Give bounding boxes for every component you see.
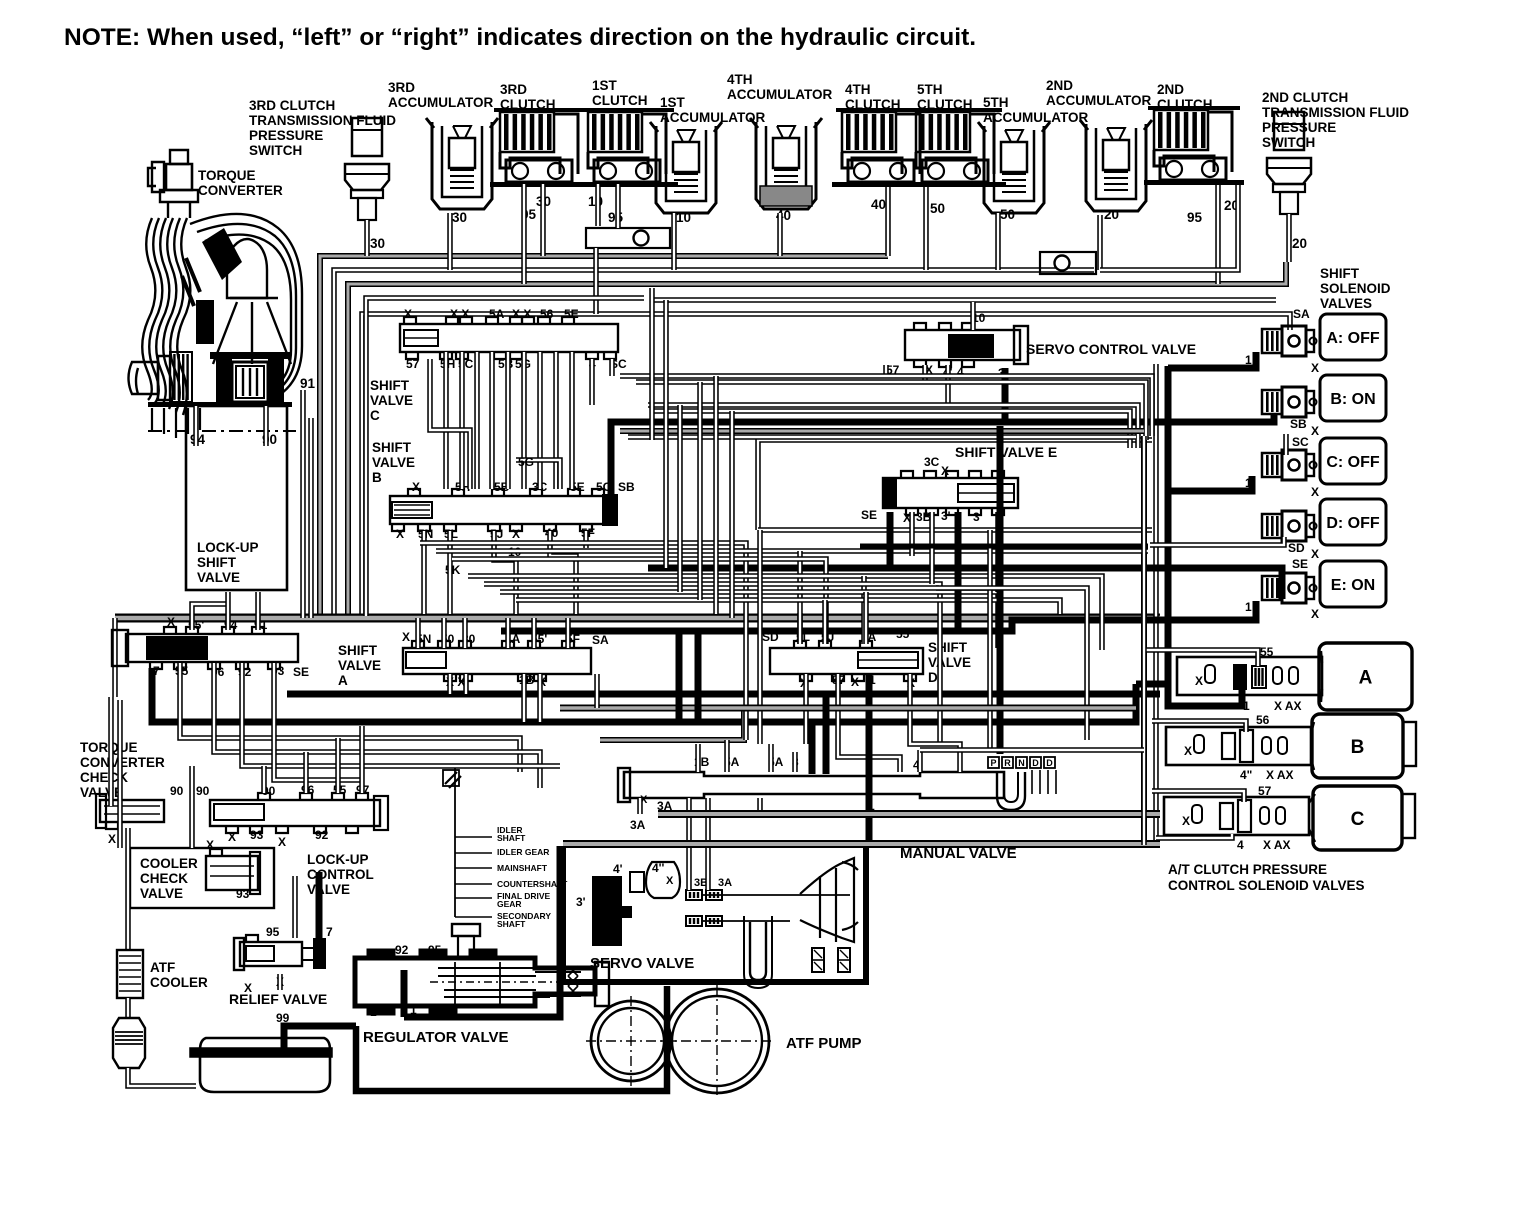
torque converter hub xyxy=(216,358,232,402)
manual valve detent ticks xyxy=(1031,770,1033,794)
wire valve A left tops up xyxy=(192,604,230,630)
svg-text:X: X xyxy=(1311,485,1319,499)
thick servo control valve 3 drop xyxy=(1002,368,1009,422)
wire lockup control valve tops up xyxy=(261,766,267,793)
wire valve A left bottoms down xyxy=(180,663,520,772)
solenoid A xyxy=(1262,329,1282,353)
wire check valve drop xyxy=(593,248,599,314)
svg-text:20: 20 xyxy=(1104,207,1119,222)
ATF pump right gear xyxy=(665,989,769,1093)
svg-text:X: X xyxy=(1311,547,1319,561)
svg-text:X: X xyxy=(404,307,412,321)
servo valve hatched couplers xyxy=(686,890,702,900)
svg-text:VALVES: VALVES xyxy=(1320,296,1372,311)
wire strainer to pan xyxy=(128,1068,196,1086)
svg-text:4': 4' xyxy=(613,862,623,876)
regulator valve spool xyxy=(355,950,609,1014)
3rd clutch xyxy=(500,112,554,152)
svg-text:D: D xyxy=(1046,758,1053,768)
solenoid D xyxy=(1262,514,1282,538)
pcsv A hatched plug xyxy=(1252,666,1266,688)
servo control valve black section xyxy=(948,334,994,358)
wire valve C left port drop xyxy=(430,359,470,489)
svg-text:3': 3' xyxy=(576,895,586,909)
svg-text:SE: SE xyxy=(861,508,877,522)
svg-text:30: 30 xyxy=(452,210,467,225)
svg-text:X: X xyxy=(412,480,420,494)
svg-text:ATF PUMP: ATF PUMP xyxy=(786,1035,862,1052)
svg-text:SC: SC xyxy=(1292,435,1309,449)
shift valve A right piston xyxy=(406,652,446,668)
3rd clutch pressure switch xyxy=(352,118,382,156)
wire 2nd switch 20 xyxy=(1286,214,1292,262)
ATF pump left gear xyxy=(591,1001,671,1081)
wire bus (B4) xyxy=(652,297,1276,303)
svg-text:VALVE: VALVE xyxy=(80,785,123,800)
svg-text:X: X xyxy=(1184,744,1192,758)
thick 3 line servo control to manual valve xyxy=(997,426,1004,754)
svg-text:SHAFT: SHAFT xyxy=(497,833,526,843)
shift valve E black end xyxy=(883,479,897,507)
svg-text:ACCUMULATOR: ACCUMULATOR xyxy=(983,110,1088,125)
svg-text:57: 57 xyxy=(1258,784,1272,798)
servo valve enclosure xyxy=(563,846,866,982)
wire 5th accumulator drop xyxy=(995,213,1001,270)
wire valve E port drops xyxy=(909,512,915,556)
svg-text:VALVE: VALVE xyxy=(370,393,413,408)
svg-text:VALVE: VALVE xyxy=(140,886,183,901)
svg-text:55: 55 xyxy=(1260,645,1274,659)
svg-text:SWITCH: SWITCH xyxy=(1262,135,1315,150)
wire 4th clutch 40 xyxy=(885,187,891,256)
wire 3rd clutch 95 xyxy=(521,184,527,284)
shift valve B spool xyxy=(390,496,616,524)
svg-text:ACCUMULATOR: ACCUMULATOR xyxy=(1046,93,1151,108)
ATF cooler xyxy=(117,950,143,998)
wire grey bus under manual valve xyxy=(658,810,1160,818)
svg-text:VALVE: VALVE xyxy=(372,455,415,470)
2nd accumulator xyxy=(1086,124,1146,211)
svg-text:X AX: X AX xyxy=(1274,699,1302,713)
wire manual valve bottom drops xyxy=(637,798,643,814)
svg-text:20: 20 xyxy=(1292,236,1307,251)
gear leader hatch xyxy=(445,772,461,788)
strainer xyxy=(113,1018,145,1068)
thick line to solenoid E top xyxy=(648,568,1282,599)
relief valve black bit xyxy=(313,938,326,969)
wire bus 30 (B1) xyxy=(320,256,888,616)
svg-text:3RD: 3RD xyxy=(500,82,527,97)
wire pcsv A 55 feed xyxy=(1144,650,1258,666)
wire 1st accumulator drop xyxy=(671,213,677,270)
wire 5G loop xyxy=(516,460,560,489)
svg-text:C: C xyxy=(370,408,380,423)
svg-text:X: X xyxy=(206,838,214,852)
cooler check valve box xyxy=(130,848,274,908)
cooler check valve spool xyxy=(206,856,258,890)
svg-text:95: 95 xyxy=(266,925,280,939)
svg-text:A: OFF: A: OFF xyxy=(1326,330,1380,347)
thick line to solenoid C xyxy=(1168,476,1252,491)
manual valve PRNDD boxes xyxy=(988,757,999,768)
wire under pcsv C xyxy=(1156,834,1232,838)
svg-text:SA: SA xyxy=(592,633,609,647)
shift valve E enclosure xyxy=(758,440,1152,530)
thick valve A bottom enclosure xyxy=(287,691,1160,698)
thick under valve A L xyxy=(152,668,1136,722)
svg-text:SHIFT: SHIFT xyxy=(928,640,968,655)
wire relief to regulator xyxy=(277,974,283,990)
svg-text:4": 4" xyxy=(1240,768,1252,782)
shift valve A left spool xyxy=(126,634,298,662)
svg-text:1: 1 xyxy=(1245,600,1252,614)
wire servo control drops xyxy=(883,365,889,376)
svg-text:X: X xyxy=(108,832,116,846)
wire pcsv B 56 feed xyxy=(1152,721,1246,732)
svg-text:IDLER GEAR: IDLER GEAR xyxy=(497,847,549,857)
wire bus pair y404 xyxy=(648,405,1138,448)
oil pan strainer band xyxy=(190,1048,332,1057)
wire bus to SA (B5) xyxy=(362,314,1290,616)
lock-up control valve right cap xyxy=(374,796,388,830)
shift valve A left cap xyxy=(112,630,128,666)
gearbox label leaders xyxy=(455,836,492,838)
svg-text:X AX: X AX xyxy=(1266,768,1294,782)
wire jog to pcsv column xyxy=(936,588,1087,740)
svg-text:95: 95 xyxy=(1187,210,1203,225)
svg-text:40: 40 xyxy=(871,197,886,212)
svg-text:LOCK-UP: LOCK-UP xyxy=(307,852,369,867)
torque converter left bolt xyxy=(129,356,171,400)
lock-up control valve spool xyxy=(210,800,380,826)
wire valve D bottoms down xyxy=(803,674,809,744)
svg-text:90: 90 xyxy=(170,784,184,798)
svg-text:COOLER: COOLER xyxy=(150,975,208,990)
svg-text:CLUTCH: CLUTCH xyxy=(592,93,648,108)
wire 94 90 drops xyxy=(193,406,199,446)
wire 4th accumulator drop xyxy=(777,213,783,256)
svg-text:D: D xyxy=(1032,758,1039,768)
svg-text:TRANSMISSION FLUID: TRANSMISSION FLUID xyxy=(249,113,396,128)
svg-text:D: D xyxy=(928,670,938,685)
1st clutch xyxy=(588,112,642,152)
wire servo control valve 10 drop xyxy=(970,302,976,330)
torque converter check valve spool xyxy=(100,800,164,822)
svg-text:X: X xyxy=(1195,674,1203,688)
svg-text:B: B xyxy=(1351,737,1365,758)
svg-text:X: X xyxy=(1311,607,1319,621)
pcsv B plugs xyxy=(1222,733,1235,759)
servo valve small parts xyxy=(630,872,644,892)
wire 5th clutch 50 xyxy=(923,187,929,270)
servo control valve right cap xyxy=(1014,326,1028,364)
svg-text:5G: 5G xyxy=(518,455,534,469)
svg-text:92: 92 xyxy=(395,943,409,957)
wire pcsv C 57 feed xyxy=(1152,791,1244,802)
svg-text:93: 93 xyxy=(250,828,264,842)
svg-text:COOLER: COOLER xyxy=(140,856,198,871)
svg-text:X: X xyxy=(396,527,404,541)
svg-text:B: B xyxy=(372,470,382,485)
solenoid box B: ON xyxy=(1320,375,1386,421)
solenoid E xyxy=(1262,576,1282,600)
svg-text:MAINSHAFT: MAINSHAFT xyxy=(497,863,548,873)
svg-text:ACCUMULATOR: ACCUMULATOR xyxy=(660,110,765,125)
svg-text:7: 7 xyxy=(326,925,333,939)
solenoid box D: OFF xyxy=(1320,499,1386,545)
svg-text:ACCUMULATOR: ACCUMULATOR xyxy=(388,95,493,110)
svg-text:N: N xyxy=(1018,758,1025,768)
pcsv A black plug xyxy=(1233,664,1247,690)
svg-text:X: X xyxy=(278,835,286,849)
wire valve C right port drops xyxy=(589,359,595,405)
svg-text:B: ON: B: ON xyxy=(1330,391,1375,408)
svg-text:SERVO VALVE: SERVO VALVE xyxy=(590,955,694,972)
servo valve U tube xyxy=(750,922,766,980)
wire staircase runs B to D/E xyxy=(420,543,746,740)
solenoid B xyxy=(1262,390,1282,414)
svg-text:56: 56 xyxy=(540,307,554,321)
svg-text:REGULATOR VALVE: REGULATOR VALVE xyxy=(363,1029,509,1046)
svg-text:COUNTERSHAFT: COUNTERSHAFT xyxy=(497,879,568,889)
svg-text:1: 1 xyxy=(370,1005,377,1019)
lock-up control valve piston xyxy=(214,804,264,820)
shift valve C spool xyxy=(400,324,618,352)
svg-text:SWITCH: SWITCH xyxy=(249,143,302,158)
svg-text:2ND: 2ND xyxy=(1046,78,1073,93)
wire valve A right tops up xyxy=(415,618,421,648)
svg-text:X AX: X AX xyxy=(1263,838,1291,852)
wire 2nd clutch 20 xyxy=(1100,185,1238,270)
wire 4 line down xyxy=(987,530,993,750)
thick valve D 1 port to manual valve xyxy=(866,674,873,846)
thick D-row bus xyxy=(860,544,1148,549)
wire grey bus y708 xyxy=(560,705,1136,712)
svg-text:4TH: 4TH xyxy=(727,72,753,87)
manual valve left cap xyxy=(618,768,630,802)
lock-up shift valve box xyxy=(186,406,287,590)
thick pump suction xyxy=(356,986,667,1091)
svg-text:50: 50 xyxy=(1000,207,1015,222)
svg-text:X: X xyxy=(666,875,674,887)
svg-text:2ND CLUTCH: 2ND CLUTCH xyxy=(1262,90,1348,105)
wire 2nd accumulator drop xyxy=(1097,215,1103,270)
wire 2nd clutch 95 xyxy=(1215,185,1221,284)
wire mid pair to manual valve xyxy=(757,530,763,744)
wire valve D top ports up xyxy=(797,613,803,644)
torque converter xyxy=(142,150,302,415)
svg-text:5TH: 5TH xyxy=(983,95,1009,110)
svg-text:C: C xyxy=(1351,809,1365,830)
svg-text:RELIEF VALVE: RELIEF VALVE xyxy=(229,991,327,1007)
thick into A body xyxy=(1136,681,1168,688)
shift valve B black end xyxy=(602,494,618,526)
manual valve enclosure top xyxy=(600,710,744,740)
servo valve detent squares xyxy=(812,948,824,972)
5th clutch xyxy=(916,112,970,152)
svg-text:CONVERTER: CONVERTER xyxy=(198,183,283,198)
svg-text:3C: 3C xyxy=(924,455,940,469)
servo valve fork xyxy=(800,858,858,942)
thick line to solenoid A xyxy=(1168,352,1256,368)
wire grey pair y430 xyxy=(620,428,1144,434)
torque converter turbine dark patch xyxy=(202,228,242,280)
wire right column hatched vertical xyxy=(1141,436,1147,845)
4th clutch xyxy=(842,112,896,152)
svg-text:30: 30 xyxy=(370,236,385,251)
svg-text:2ND: 2ND xyxy=(1157,82,1184,97)
svg-text:SHAFT: SHAFT xyxy=(497,919,526,929)
shift valve A right spool xyxy=(403,648,591,674)
wire valve B bottom drops xyxy=(421,531,427,614)
svg-text:TORQUE: TORQUE xyxy=(198,168,256,183)
wire 99 pipe xyxy=(284,1026,356,1048)
svg-text:VALVE: VALVE xyxy=(307,882,350,897)
4th accumulator xyxy=(756,122,816,209)
wire SA port drop xyxy=(594,674,600,708)
thick manual valve feeds xyxy=(809,722,816,774)
svg-text:3A: 3A xyxy=(630,818,646,832)
pressure control valve C body xyxy=(1309,794,1315,842)
wire manual valve right 4 port xyxy=(917,750,923,772)
svg-text:1: 1 xyxy=(1243,699,1250,713)
svg-text:X: X xyxy=(512,527,520,541)
svg-text:PRESSURE: PRESSURE xyxy=(249,128,323,143)
svg-text:SA: SA xyxy=(1293,307,1310,321)
svg-text:SHIFT: SHIFT xyxy=(338,643,378,658)
valve C enclosure xyxy=(366,298,644,616)
svg-text:4: 4 xyxy=(1237,838,1244,852)
svg-text:LOCK-UP: LOCK-UP xyxy=(197,540,259,555)
svg-text:SE: SE xyxy=(293,665,309,679)
thick regulator enclosure xyxy=(401,970,408,1017)
shift valve E spool xyxy=(883,478,1018,508)
wire cooler to strainer xyxy=(125,998,131,1018)
pcsv C plugs xyxy=(1220,803,1233,829)
svg-text:SHIFT: SHIFT xyxy=(370,378,410,393)
wire mid verticals between buses xyxy=(649,288,655,440)
svg-text:X: X xyxy=(1311,361,1319,375)
manual valve detent xyxy=(997,772,1025,810)
svg-text:3RD CLUTCH: 3RD CLUTCH xyxy=(249,98,335,113)
relief valve spool xyxy=(240,942,302,966)
wire SC corner to solenoid C xyxy=(1283,434,1289,455)
thick line pressure vertical right xyxy=(1165,366,1172,708)
wire manual valve top ports xyxy=(695,744,701,772)
svg-text:SD: SD xyxy=(1288,541,1305,555)
oil pan xyxy=(200,1038,330,1092)
servo valve link lines xyxy=(702,894,850,896)
svg-text:E: ON: E: ON xyxy=(1331,577,1375,594)
solenoid box C: OFF xyxy=(1320,438,1386,484)
svg-text:X: X xyxy=(402,630,410,644)
svg-text:X: X xyxy=(1182,814,1190,828)
svg-text:P: P xyxy=(990,758,996,768)
wire 1st clutch 10 xyxy=(595,184,601,226)
shift valve A enclosure left xyxy=(112,618,118,697)
svg-text:3RD: 3RD xyxy=(388,80,415,95)
wire valve A right bottoms down xyxy=(447,674,453,694)
svg-text:92: 92 xyxy=(315,828,329,842)
wire bus (B3) xyxy=(348,262,1286,616)
wire line to solenoid D xyxy=(1150,537,1284,545)
wire valve E SE thick drop xyxy=(887,512,894,568)
wire 3rd clutch 30 xyxy=(540,184,546,256)
servo control valve spool xyxy=(905,330,1020,360)
svg-text:SHIFT: SHIFT xyxy=(1320,266,1360,281)
wire grey bus y844 xyxy=(563,840,1160,848)
wire left column verticals xyxy=(108,697,114,806)
svg-text:R: R xyxy=(1004,758,1011,768)
wire relief valve link xyxy=(316,872,323,938)
svg-text:SB: SB xyxy=(1290,417,1307,431)
svg-text:90: 90 xyxy=(196,784,210,798)
svg-text:X: X xyxy=(1311,424,1319,438)
check valve assembly right xyxy=(1040,252,1096,274)
svg-text:SOLENOID: SOLENOID xyxy=(1320,281,1391,296)
svg-text:95: 95 xyxy=(428,943,442,957)
2nd clutch pressure switch xyxy=(1274,112,1304,150)
svg-text:X: X xyxy=(228,830,236,844)
svg-text:NOTE: When used, “left” or “ri: NOTE: When used, “left” or “right” indic… xyxy=(64,24,976,51)
wire valve C to valve B verticals xyxy=(443,352,449,489)
svg-text:1ST: 1ST xyxy=(660,95,686,110)
svg-text:SB: SB xyxy=(618,480,635,494)
wire bus (B2) xyxy=(334,270,1094,616)
2nd clutch xyxy=(1154,110,1208,150)
shift valve D spool xyxy=(770,648,923,674)
svg-text:VALVE: VALVE xyxy=(928,655,971,670)
5th accumulator xyxy=(984,126,1044,213)
svg-text:D: OFF: D: OFF xyxy=(1326,515,1380,532)
svg-text:C: OFF: C: OFF xyxy=(1326,454,1380,471)
shift valve A black blob xyxy=(146,636,208,660)
svg-text:5TH: 5TH xyxy=(917,82,943,97)
svg-text:5E: 5E xyxy=(564,307,579,321)
1st accumulator xyxy=(656,126,716,213)
regulator valve bolt xyxy=(452,924,480,936)
shift valve D right piston xyxy=(858,652,918,668)
svg-text:A: A xyxy=(1359,668,1373,689)
pressure control valve A body xyxy=(1321,651,1322,702)
wire 3rd accumulator drop xyxy=(447,213,453,270)
svg-text:CONTROL SOLENOID VALVES: CONTROL SOLENOID VALVES xyxy=(1168,878,1365,893)
svg-text:4TH: 4TH xyxy=(845,82,871,97)
svg-text:93: 93 xyxy=(236,887,250,901)
thick line to solenoid E bottom xyxy=(501,601,1256,631)
3rd accumulator xyxy=(432,122,492,209)
svg-text:91: 91 xyxy=(300,376,316,391)
wire drop to cooler check box xyxy=(189,766,195,848)
thick SB line xyxy=(611,414,1274,498)
solenoid C xyxy=(1262,453,1282,477)
torque converter base xyxy=(148,402,292,407)
svg-text:10: 10 xyxy=(676,210,691,225)
shift valve C left piston xyxy=(404,330,438,346)
svg-text:A/T CLUTCH PRESSURE: A/T CLUTCH PRESSURE xyxy=(1168,862,1327,877)
manual valve spool xyxy=(624,772,1004,798)
svg-text:56: 56 xyxy=(1256,713,1270,727)
shift valve A enclosure top xyxy=(115,614,1160,623)
svg-text:SHIFT: SHIFT xyxy=(372,440,412,455)
pressure control valve B body xyxy=(1311,722,1314,770)
servo valve black piston xyxy=(592,876,632,946)
wire right column drops to pcsv xyxy=(1141,436,1147,845)
wire 1st clutch 95 xyxy=(615,184,621,228)
svg-text:A: A xyxy=(338,673,348,688)
check valve assembly left xyxy=(586,228,670,248)
wire cooler feed vertical xyxy=(125,828,131,950)
